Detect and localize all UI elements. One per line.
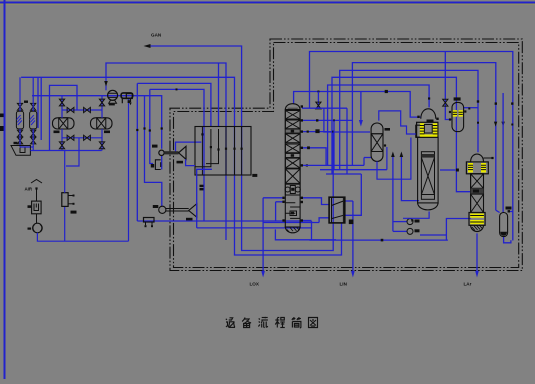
wire filter to blower [36, 214, 38, 224]
svg-text:LOX: LOX [250, 282, 260, 287]
K2 head label [427, 120, 434, 123]
junction R2 leg [495, 102, 497, 104]
wire drop c [150, 89, 153, 163]
K2 head box [417, 122, 438, 137]
wire separator out [30, 150, 101, 152]
label PI1 [415, 220, 420, 223]
wire R3 [340, 70, 478, 169]
wire below V3 [504, 237, 511, 243]
wire drop a [136, 83, 138, 221]
label E1 wheel [186, 218, 193, 221]
expander E2 circle [159, 150, 164, 155]
K2 dome [421, 109, 436, 119]
wire second exch line [218, 63, 220, 127]
expander E1 shaft [166, 209, 189, 212]
arrow fr3 [501, 122, 504, 127]
label E2 [152, 145, 158, 148]
wire V3 feed [496, 210, 500, 212]
wire riser 334 [333, 120, 335, 169]
K3 band [471, 188, 484, 194]
label D [349, 220, 354, 225]
title glyph [277, 317, 279, 319]
expander E1 wheel [189, 204, 197, 218]
wire short stub [37, 77, 39, 128]
wire cooler line b [137, 83, 211, 127]
wire y132 branch [324, 108, 370, 132]
wire R2 [352, 63, 495, 211]
junction n116b [333, 119, 335, 121]
valve V2 feed [443, 99, 448, 106]
wire intake [36, 189, 38, 202]
valve ms bot h2 [84, 135, 91, 140]
junction n131 [332, 131, 334, 133]
separator [11, 146, 30, 156]
wire inst drop [392, 154, 394, 232]
K3 bottom block [469, 213, 485, 226]
arrow k2b [400, 152, 404, 158]
wire ms out right [101, 129, 103, 151]
arrow down [359, 120, 363, 127]
wire LOX nozzle [263, 197, 283, 199]
wire inst stub2 [393, 230, 407, 232]
vessel V1 [371, 123, 383, 161]
aftercooler [121, 93, 133, 98]
K2 bottom pipe [403, 212, 429, 219]
V2 left dots [449, 111, 451, 113]
K2 bottom dome [418, 203, 439, 210]
label AF [28, 205, 32, 208]
instrument PI1 [407, 219, 413, 225]
arrow inst [391, 152, 395, 158]
K2 left bracket [416, 125, 421, 137]
inline mark [385, 90, 388, 93]
arrow fr2 [494, 122, 497, 127]
K2 feed tick [428, 97, 430, 99]
K3 packing 1 [471, 174, 484, 189]
K1 packing 3 [285, 134, 300, 143]
wire LOX feed [262, 198, 264, 272]
adsorber 2 bottom valve [31, 130, 36, 137]
compressor base [109, 100, 117, 103]
E2 motor bracket [155, 160, 160, 170]
wire sieve lower drop [66, 138, 79, 166]
K2 head yellow right [433, 123, 438, 136]
wire K1 dome loop [294, 92, 421, 118]
K2 dome nozzle left [417, 116, 419, 118]
left margin label2 [0, 126, 4, 131]
valve ms top h1 [67, 107, 74, 112]
wire K2 left line [377, 138, 411, 180]
column K1 dome [285, 104, 300, 110]
K2 inner column [421, 152, 434, 200]
K1 nozzle right [301, 119, 303, 121]
label PI2 [415, 229, 420, 232]
adsorber 1 top valve [17, 103, 22, 110]
wire drop 275 [275, 202, 277, 221]
wire V3 link [508, 211, 513, 213]
K1 nozzle left [282, 201, 284, 203]
wire right horiz 165 [303, 164, 364, 166]
LOX arrow [261, 271, 265, 278]
junction R3 dot [477, 122, 479, 124]
junction n131b [307, 131, 309, 133]
wire bottom bus 3 [197, 227, 312, 229]
junction n148 [307, 146, 310, 149]
wire V2 right [464, 107, 478, 109]
wire adsorber bottom link [20, 147, 33, 151]
wire inst stub1 [393, 221, 407, 223]
V2 yellow left [453, 110, 457, 116]
left margin label1 [0, 114, 4, 118]
title glyph [309, 318, 318, 328]
K3 bottom yellow [470, 214, 484, 218]
wire R5 [328, 85, 430, 165]
X3 tube 3 [234, 127, 236, 176]
X3 tube 2 [225, 127, 227, 176]
valve ms in right [99, 99, 104, 106]
wire short stub2 [40, 77, 42, 140]
wire right horiz 169 [320, 169, 387, 171]
AIR tick [35, 187, 37, 189]
tick 161 [161, 127, 163, 129]
K1 nozzle right [301, 147, 303, 149]
adsorber 2 top valve [31, 103, 36, 110]
K1 nozzle right [301, 105, 303, 107]
label X3 [252, 174, 257, 177]
wire ms inlet left [61, 96, 63, 118]
K3 head yellow right [481, 163, 486, 173]
valve ms top h2 [84, 107, 91, 112]
label E1 [153, 205, 159, 208]
wire K3 bottom left [446, 219, 470, 241]
wire R1 [310, 52, 513, 241]
K1 nozzle left [282, 197, 284, 199]
X3 tube L1 [195, 129, 211, 167]
valve ms bot h1 [67, 135, 74, 140]
cold box boundary inner [174, 43, 519, 268]
blue page border top [0, 2, 535, 4]
wire riser 347 [346, 108, 348, 174]
suction arrow [104, 81, 108, 87]
expander E1 circle [159, 206, 166, 213]
V2 right stub [464, 110, 466, 112]
K1 nozzle right [301, 197, 303, 199]
LIN arrow [351, 271, 355, 278]
K1 nozzle left [282, 219, 284, 221]
label adsorber [24, 101, 28, 103]
exchanger block X3 [195, 127, 251, 176]
blue page border left [4, 0, 6, 379]
V1 right dot [384, 144, 386, 146]
wire compressor header [32, 96, 162, 149]
wire ms bottom manifold [62, 137, 102, 139]
K1 packing 6 [285, 169, 300, 184]
junction [176, 88, 178, 90]
column K1 shell [285, 110, 300, 228]
label blower [28, 228, 32, 230]
mol sieve vessel 2 [91, 118, 113, 129]
wire K3 left feed [440, 169, 456, 171]
wire arrow branch [360, 92, 362, 121]
wire GAN line [149, 46, 333, 251]
wire valve stub [317, 92, 319, 109]
intake mark [31, 180, 42, 184]
wire k2 bottom line [401, 154, 419, 201]
wire K1 left nozzle2 [276, 201, 283, 203]
regen valve box [126, 94, 132, 99]
K1 nozzle right [301, 219, 303, 221]
label R [315, 129, 319, 133]
K1 band small box [285, 154, 300, 158]
air filter [32, 201, 41, 214]
wire ms inlet right [101, 96, 103, 118]
wire V1 top loop [379, 111, 416, 134]
expander E2 wheel [179, 146, 186, 159]
wire main header y77 [21, 77, 341, 255]
adsorber cylinder 2 [30, 111, 37, 129]
label MS1 [54, 131, 60, 134]
valve on stub [316, 102, 321, 109]
instrument PI2 [407, 228, 413, 234]
blower [33, 223, 43, 233]
wire K1 nozzle 148 [301, 148, 326, 166]
wire compressor suction [105, 77, 107, 90]
wire bottom bus 2 [263, 222, 319, 224]
label XXA [200, 185, 204, 187]
K1 packing 1 [285, 111, 300, 120]
compressor circle [108, 90, 118, 100]
LAr arrow [475, 271, 479, 278]
wire y108 line [302, 107, 347, 109]
wire block exit drop [197, 169, 212, 228]
wire LAr feed [476, 233, 478, 271]
wire RV riser [64, 206, 66, 241]
X3 tube 4 [241, 127, 243, 176]
svg-text:LAr: LAr [464, 282, 472, 287]
label E2 wheel [177, 161, 184, 164]
valve ms out left [59, 142, 64, 149]
title glyph [259, 319, 260, 320]
K1 nozzle right [301, 130, 303, 132]
tick 149 [149, 129, 151, 131]
subcooler D [329, 197, 345, 223]
regen heater RV [62, 193, 68, 207]
K3 head box [466, 162, 488, 174]
expander E2 shaft [164, 151, 178, 154]
wire 364 link165 [363, 158, 365, 166]
svg-text:AIR: AIR [25, 187, 33, 192]
wire regen riser [128, 99, 130, 242]
cold box boundary outer [170, 39, 522, 271]
junction y240 [381, 239, 384, 242]
K3 head yellow left [468, 163, 473, 173]
wire block left entry2 [186, 159, 195, 165]
K3 dome [471, 154, 484, 162]
K1 pump section [285, 184, 300, 195]
wire left 235 [420, 234, 446, 236]
wire LIN feed [352, 201, 354, 272]
V3 top tick [508, 210, 510, 212]
K1 band dark [285, 129, 300, 133]
wire K1 bottom right [301, 220, 312, 222]
label MS2 [104, 131, 110, 134]
K1 packing 4 [285, 144, 300, 153]
wire drop b [145, 96, 162, 207]
K1 nozzle right [301, 164, 303, 166]
wire V1 outlet2 [386, 147, 388, 170]
wire ms top manifold [62, 109, 102, 111]
K3 bottom dome [471, 225, 484, 231]
K3 packing 2 [471, 194, 484, 212]
wire far right drop [502, 93, 504, 213]
junction R3 top [477, 100, 479, 102]
wire K1 right lower [301, 198, 329, 205]
valve ms out right [99, 142, 104, 149]
wire 364 riser [364, 157, 371, 159]
wire RV top [64, 151, 66, 193]
title glyph [226, 319, 227, 320]
junction dome loop [317, 91, 319, 93]
V2 shell [452, 102, 464, 131]
valve ms in left [59, 99, 64, 106]
K1 nozzle right [301, 201, 303, 203]
tick 144 [143, 127, 145, 129]
V3 shell [500, 213, 508, 237]
wire bottom bus 4 [275, 229, 336, 239]
svg-text:LIN: LIN [340, 282, 348, 287]
wire K1 nozzle 116 [301, 119, 352, 121]
wire R4 [332, 77, 471, 191]
wire E2 to E1 [161, 156, 163, 170]
wire K1 nozzle 131 [301, 131, 333, 133]
K3 dome stub [484, 157, 493, 159]
X3 tube 1 [201, 127, 203, 176]
junction fr1 [511, 102, 513, 104]
title glyph [242, 318, 245, 322]
K2 outer shell [418, 137, 439, 203]
yellow accent under top border [0, 3, 535, 5]
wire to subcooler [345, 174, 362, 215]
K1 packing 5 [285, 158, 300, 168]
wire V2 feed [445, 52, 452, 120]
wire cooler line c [150, 89, 204, 221]
K2 packing [421, 158, 434, 195]
K2 band [421, 154, 434, 158]
K1 sump baffles [285, 203, 300, 219]
wire right horiz 174 [326, 173, 361, 175]
label V1 [385, 128, 391, 131]
adsorber cylinder 1 [16, 111, 23, 129]
K2 head inner [424, 125, 432, 134]
K1 bottom dome [285, 227, 300, 233]
wire blower out [37, 233, 128, 241]
label RV [71, 211, 77, 214]
K2 head yellow bottom [420, 135, 438, 138]
adsorber 1 bottom valve [17, 130, 22, 137]
K3 left nozzle [456, 169, 459, 172]
wire y240 line [309, 239, 448, 241]
K2 head yellow left [420, 123, 425, 136]
GAN arrow [144, 44, 151, 48]
wire E2 outlet [176, 142, 202, 152]
K2 dome nozzle right [436, 118, 438, 120]
V2 yellow right [459, 110, 463, 116]
title glyph [292, 318, 295, 320]
wire subcooler out lower [319, 218, 329, 223]
tick 137 [136, 129, 138, 131]
X3 inlet dot [201, 133, 203, 135]
label S [14, 142, 18, 144]
wire link k1 right [311, 221, 313, 240]
wire bottom bus 1 [137, 220, 311, 222]
junction n116a [316, 119, 318, 121]
X3 tube L2 [206, 129, 219, 164]
K3 body [471, 174, 484, 213]
K2 bottom dot [411, 219, 413, 221]
mol sieve vessel 1 [53, 118, 75, 129]
wire riser to GAN header [106, 63, 226, 240]
wire ms out left [61, 129, 63, 151]
V3 label [506, 207, 512, 210]
svg-text:GAN: GAN [151, 33, 162, 38]
junction fr4 [511, 124, 513, 126]
junction 165 [306, 164, 308, 166]
wire sieve feed [50, 85, 78, 150]
K1 packing 2 [285, 120, 300, 129]
wire subcooler right [345, 200, 353, 202]
V2 label [454, 97, 461, 100]
skid unit [144, 218, 155, 223]
